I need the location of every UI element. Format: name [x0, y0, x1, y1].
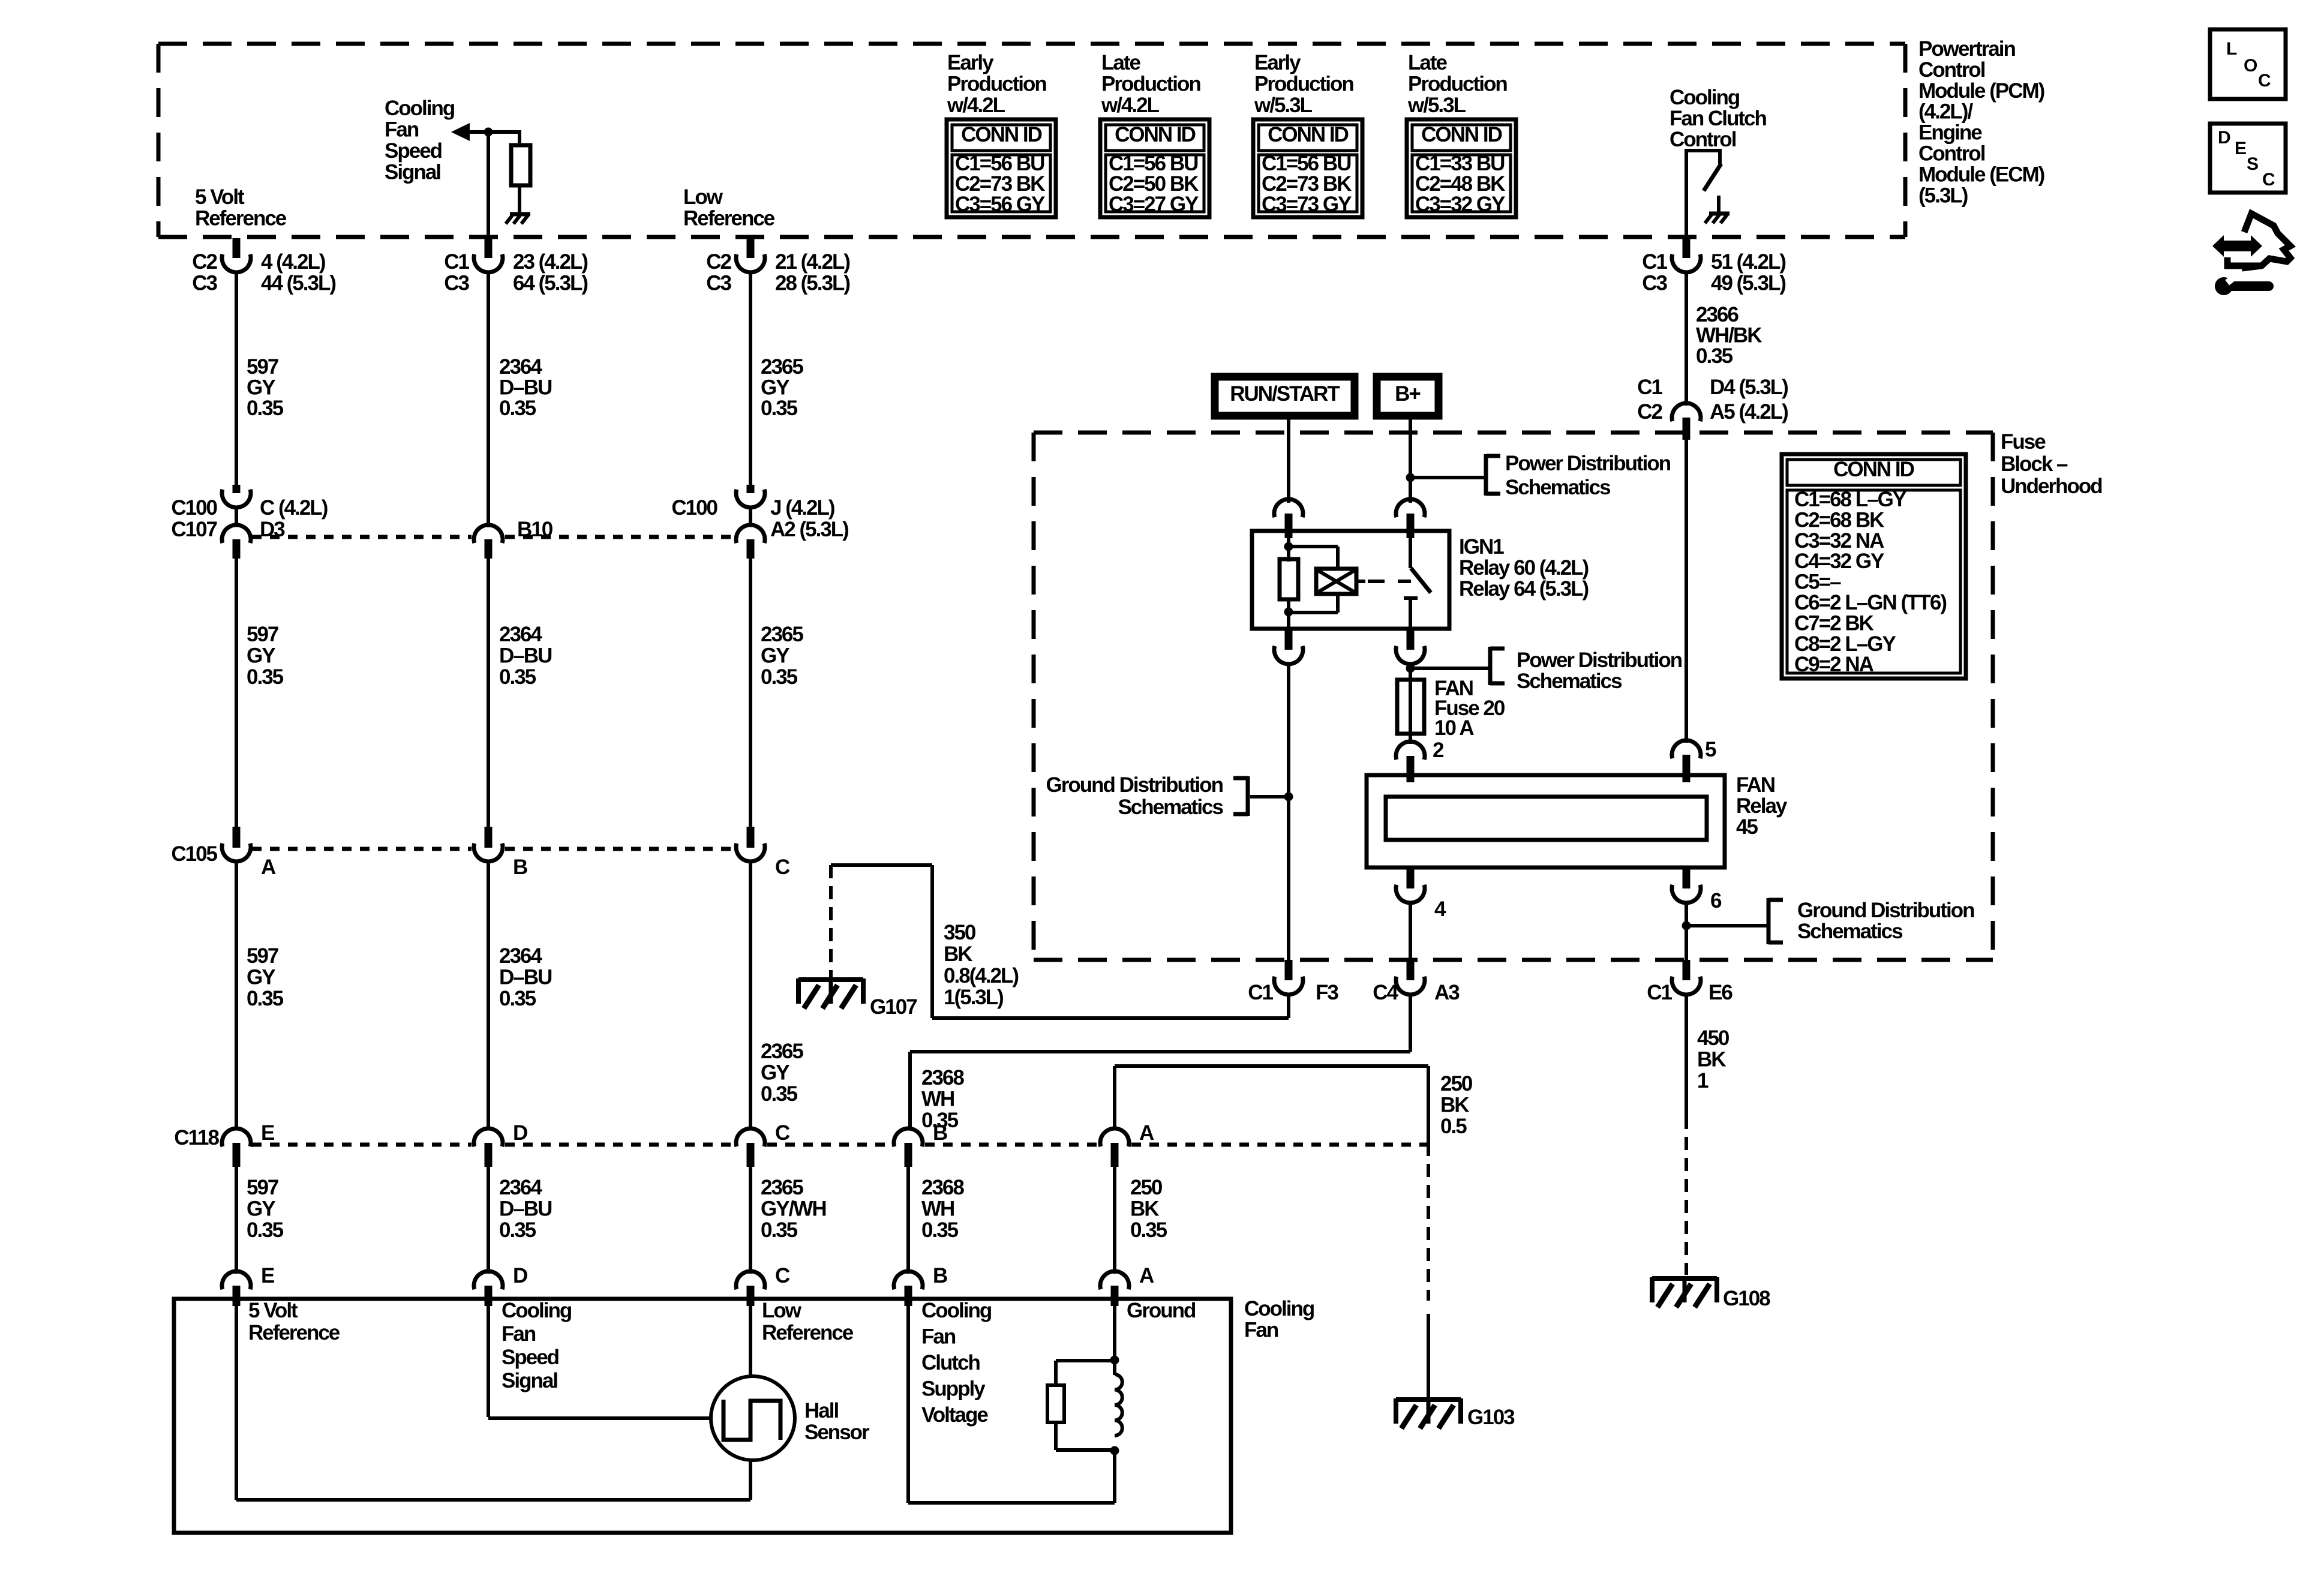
svg-text:5: 5: [1705, 738, 1716, 761]
svg-text:G103: G103: [1467, 1406, 1515, 1429]
connector at IGN1 relay output (switch side): [1396, 630, 1425, 664]
wire segment C118 to cooling fan (x=1251): [749, 1166, 752, 1274]
wire: coil low side long run to F3: [1287, 663, 1290, 980]
pin label right 21 (4.2L)/28 (5.3L): [775, 250, 849, 295]
svg-text:C2=68 BK: C2=68 BK: [1794, 508, 1884, 532]
wire: coil bottom to supply line: [1113, 1449, 1116, 1503]
wire 2364 D-BU: PCM to C100 row: [487, 272, 490, 527]
wire segment C105 to C118 (x=394): [235, 860, 238, 1130]
wire segment C118 to cooling fan (x=1858): [1113, 1166, 1116, 1274]
connector C1 F3 (fuse block bottom): [1274, 960, 1303, 995]
svg-text:Fan: Fan: [1244, 1319, 1278, 1342]
pin letter D at cooling fan: [513, 1264, 527, 1287]
svg-text:RUN/START: RUN/START: [1230, 382, 1340, 406]
svg-text:C1: C1: [1642, 250, 1667, 274]
svg-text:44 (5.3L): 44 (5.3L): [261, 272, 335, 295]
navigation arrow-wrench icon: [2212, 214, 2290, 295]
label FAN Fuse 20 10 A: [1434, 677, 1505, 740]
svg-text:C3: C3: [706, 272, 731, 295]
connector C100/C107 double (x=1251): [736, 485, 765, 559]
wire label 2366 WH/BK 0.35: [1696, 303, 1762, 368]
svg-text:Relay 64 (5.3L): Relay 64 (5.3L): [1459, 577, 1588, 601]
svg-text:GY: GY: [247, 644, 275, 668]
wire: horizontal 5V-ref to hall bottom: [236, 1498, 750, 1502]
svg-text:1(5.3L): 1(5.3L): [944, 986, 1003, 1009]
svg-text:D–BU: D–BU: [499, 644, 552, 668]
label: Late Production w/4.2L: [1101, 51, 1200, 117]
CONN ID table (Early Production w/5.3L): [1253, 119, 1362, 217]
svg-text:B+: B+: [1395, 382, 1421, 406]
svg-text:C8=2 L–GY: C8=2 L–GY: [1794, 632, 1896, 656]
pin label left C1/C3: [444, 250, 469, 295]
FAN Relay 45 outer box: [1367, 775, 1725, 867]
node: Low Reference (PCM internal label): [683, 185, 775, 230]
pin number 6 label: [1710, 889, 1722, 912]
svg-text:Cooling: Cooling: [385, 97, 455, 120]
wire: A3 down, left, down to fan B: [910, 994, 1410, 1130]
svg-text:2364: 2364: [499, 623, 542, 646]
svg-text:Speed: Speed: [502, 1346, 559, 1369]
svg-text:51 (4.2L): 51 (4.2L): [1711, 250, 1785, 274]
svg-text:GY: GY: [761, 644, 789, 668]
svg-text:Sensor: Sensor: [804, 1421, 870, 1444]
pin letter B at C105: [513, 855, 527, 879]
svg-text:597: 597: [247, 623, 278, 646]
svg-text:1: 1: [1697, 1069, 1709, 1092]
label Cooling Fan Speed Signal (fan): [502, 1299, 572, 1392]
svg-text:A2 (5.3L): A2 (5.3L): [770, 518, 848, 541]
svg-text:2365: 2365: [761, 1176, 803, 1199]
svg-text:Module (PCM): Module (PCM): [1918, 79, 2044, 103]
svg-text:350: 350: [944, 921, 976, 944]
svg-text:Relay: Relay: [1736, 794, 1788, 818]
svg-text:w/4.2L: w/4.2L: [947, 94, 1005, 117]
svg-text:C2: C2: [706, 250, 731, 274]
svg-text:(5.3L): (5.3L): [1918, 184, 1968, 207]
svg-text:BK: BK: [944, 942, 972, 966]
svg-text:A: A: [261, 855, 276, 879]
hall sensor circle: [711, 1376, 795, 1460]
svg-text:Late: Late: [1408, 51, 1448, 74]
wire: ground A down to coil: [1113, 1305, 1116, 1375]
label: Early Production w/5.3L: [1254, 51, 1353, 117]
connector at IGN1 relay pin (B+ side): [1396, 499, 1425, 538]
wire: 5V ref down inside fan box: [235, 1305, 238, 1500]
svg-text:G108: G108: [1723, 1287, 1770, 1310]
svg-text:2364: 2364: [499, 944, 542, 968]
pin label left C1/C3: [1642, 250, 1667, 295]
svg-text:Control: Control: [1918, 58, 1985, 82]
svg-text:GY: GY: [761, 1061, 789, 1085]
junction dot power distribution branch 2: [1406, 664, 1415, 673]
connector pin at PCM (x=814): [474, 238, 503, 272]
PCM/ECM module dashed box (Powertrain Control Module): [158, 44, 1905, 237]
mechanical link dashed (relay): [1368, 580, 1411, 583]
wire label 2364 D-BU 0.35 (segment 2): [499, 623, 552, 689]
svg-text:2: 2: [1433, 739, 1444, 762]
pin label right 51 (4.2L)/49 (5.3L): [1711, 250, 1785, 295]
junction dot ground distribution branch right: [1682, 921, 1691, 930]
svg-text:F3: F3: [1316, 981, 1338, 1004]
wire: speed signal vertical: [487, 132, 490, 239]
wire label 350 BK 0.8(4.2L) 1(5.3L): [944, 921, 1018, 1009]
svg-text:C100: C100: [171, 496, 217, 520]
svg-text:Schematics: Schematics: [1118, 795, 1223, 819]
svg-text:Reference: Reference: [248, 1321, 340, 1344]
svg-text:E: E: [261, 1264, 274, 1287]
svg-text:GY/WH: GY/WH: [761, 1197, 826, 1221]
svg-text:A: A: [1139, 1121, 1154, 1145]
connector pin at PCM (x=2811): [1672, 238, 1701, 272]
Fuse Block - Underhood dashed box: [1034, 433, 1993, 960]
label C100/C107 left: [171, 496, 217, 541]
svg-text:2365: 2365: [761, 623, 803, 646]
label FAN Relay 45: [1736, 773, 1788, 839]
svg-text:C3=56 GY: C3=56 GY: [955, 193, 1045, 216]
suppression element (crossed box) IGN1: [1316, 569, 1356, 594]
svg-text:E: E: [2235, 139, 2247, 158]
CONN ID table (Late Production w/5.3L): [1407, 119, 1516, 217]
svg-text:Cooling: Cooling: [502, 1299, 572, 1322]
svg-text:0.35: 0.35: [247, 397, 284, 420]
node: 5 Volt Reference (PCM internal label): [195, 185, 287, 230]
fuse FAN Fuse 20 10A: [1397, 680, 1424, 734]
wire: resistor branch top: [1056, 1361, 1115, 1387]
off-page ref bracket (Power Distribution 2): [1490, 647, 1505, 685]
svg-text:WH: WH: [921, 1197, 954, 1221]
svg-text:0.35: 0.35: [921, 1109, 959, 1132]
connector C118 pin E: [222, 1128, 251, 1167]
svg-text:10 A: 10 A: [1434, 716, 1474, 740]
svg-text:C4: C4: [1373, 981, 1398, 1004]
svg-text:C7=2 BK: C7=2 BK: [1794, 611, 1874, 635]
connector C100/C107 double (x=394): [222, 485, 251, 559]
svg-text:Powertrain: Powertrain: [1918, 37, 2015, 61]
svg-text:Clutch: Clutch: [921, 1351, 980, 1374]
svg-text:2365: 2365: [761, 355, 803, 379]
ground G108: [1652, 1277, 1717, 1307]
node: Cooling Fan Speed Signal (PCM internal label): [385, 97, 455, 184]
fan clutch coil (inductor): [1115, 1374, 1122, 1436]
svg-text:CONN ID: CONN ID: [961, 123, 1042, 146]
svg-text:C: C: [775, 855, 790, 879]
label D4 (5.3L) / A5 (4.2L): [1710, 376, 1788, 424]
wire segment C100 to C105 (x=394): [235, 557, 238, 828]
svg-text:Fan: Fan: [921, 1325, 956, 1349]
wire: dashed drop to G107: [829, 865, 833, 978]
pin letter A at cooling fan: [1139, 1264, 1154, 1287]
svg-text:C1: C1: [1647, 981, 1672, 1004]
pin letter C at C105: [775, 855, 790, 879]
svg-text:w/5.3L: w/5.3L: [1254, 94, 1313, 117]
svg-text:0.35: 0.35: [761, 665, 798, 689]
connector cooling fan pin A: [1100, 1271, 1129, 1306]
svg-text:Ground: Ground: [1127, 1299, 1196, 1322]
svg-text:0.35: 0.35: [921, 1218, 959, 1242]
svg-text:WH: WH: [921, 1088, 954, 1111]
svg-text:Signal: Signal: [385, 161, 440, 184]
resistor (PCM speed signal pull-up): [511, 145, 530, 185]
svg-text:C4=32 GY: C4=32 GY: [1794, 550, 1884, 573]
connector FAN relay pin 4: [1396, 869, 1425, 903]
pin letter B at cooling fan: [933, 1264, 947, 1287]
svg-text:B10: B10: [517, 518, 553, 541]
wire label 2364 D-BU 0.35 (segment 1): [499, 355, 552, 420]
wire: branch to power distribution ref 2: [1410, 667, 1490, 670]
svg-text:Hall: Hall: [804, 1399, 838, 1422]
wire: pin 6 to E6: [1685, 902, 1688, 980]
relay switch blade (IGN1): [1411, 568, 1431, 593]
DESC icon box: [2210, 124, 2286, 193]
svg-text:2368: 2368: [921, 1066, 964, 1089]
connector C118 pin D: [474, 1128, 503, 1167]
svg-text:FAN: FAN: [1736, 773, 1774, 797]
svg-text:C5=–: C5=–: [1794, 571, 1841, 594]
wire label 2368 WH 0.35 (segment 1): [921, 1066, 964, 1132]
junction dot B+ branch: [1406, 473, 1415, 482]
pin label right 4 (4.2L)/44 (5.3L): [261, 250, 335, 295]
wire label 2364 D-BU 0.35 (segment 4): [499, 1176, 552, 1242]
svg-text:2364: 2364: [499, 355, 542, 379]
ground G103: [1396, 1398, 1461, 1428]
pin letter C at cooling fan: [775, 1264, 790, 1287]
label C100 right: [671, 496, 717, 520]
svg-text:C118: C118: [174, 1126, 219, 1149]
resistor (clutch parallel): [1047, 1385, 1064, 1422]
pin letter A at C118: [1139, 1121, 1154, 1145]
svg-text:Underhood: Underhood: [2001, 475, 2102, 498]
svg-text:250: 250: [1130, 1176, 1163, 1199]
pin label left C2/C3: [706, 250, 731, 295]
svg-text:D–BU: D–BU: [499, 1197, 552, 1221]
FAN Relay 45 inner bar: [1386, 797, 1707, 840]
PCM module name label: [1918, 37, 2044, 207]
ground G107: [798, 978, 863, 1008]
wire: crossed box to mech link: [1356, 580, 1365, 583]
wire segment C118 to cooling fan (x=814): [487, 1166, 490, 1274]
svg-text:Module (ECM): Module (ECM): [1918, 163, 2044, 186]
svg-text:Production: Production: [947, 73, 1046, 96]
label F3: [1316, 981, 1338, 1004]
svg-text:0.35: 0.35: [247, 987, 284, 1010]
svg-text:A3: A3: [1434, 981, 1460, 1004]
svg-text:C3=32 GY: C3=32 GY: [1415, 193, 1505, 216]
svg-text:D3: D3: [260, 518, 285, 541]
svg-text:Cooling: Cooling: [1244, 1297, 1314, 1320]
ground (PCM internal, speed signal): [506, 214, 530, 224]
svg-text:C6=2 L–GN (TT6): C6=2 L–GN (TT6): [1794, 591, 1946, 614]
wire label 597 GY 0.35 (segment 3): [247, 944, 284, 1010]
svg-text:0.35: 0.35: [761, 1082, 798, 1106]
CONN ID table (Fuse Block - Underhood): [1782, 454, 1966, 679]
wire label 2365 GY 0.35 (segment 2): [761, 623, 803, 689]
svg-text:Early: Early: [947, 51, 994, 74]
svg-text:6: 6: [1710, 889, 1722, 912]
svg-text:C3=32 NA: C3=32 NA: [1794, 529, 1884, 553]
connector B10 single (wire 2364): [474, 525, 503, 559]
pin letter A at C105: [261, 855, 276, 879]
off-page ref bracket (Ground Distribution right): [1768, 898, 1783, 944]
label E6: [1709, 981, 1733, 1004]
svg-text:0.35: 0.35: [499, 397, 536, 420]
label G108: [1723, 1287, 1770, 1310]
pin number 5 label: [1705, 738, 1716, 761]
wire: branch to ground distribution ref: [1250, 795, 1289, 798]
switch (Cooling Fan Clutch Control driver): [1685, 149, 1721, 191]
label A3: [1434, 981, 1460, 1004]
svg-text:Control: Control: [1918, 142, 1985, 166]
svg-text:0.8(4.2L): 0.8(4.2L): [944, 964, 1018, 987]
svg-text:597: 597: [247, 355, 278, 379]
svg-text:2365: 2365: [761, 1040, 803, 1063]
svg-text:23 (4.2L): 23 (4.2L): [513, 250, 587, 274]
junction dot relay coil bottom: [1284, 608, 1293, 617]
svg-text:0.5: 0.5: [1440, 1115, 1467, 1138]
svg-text:C2: C2: [1637, 400, 1662, 424]
wire: relay coil bottom: [1287, 599, 1290, 631]
pin letter B at C118: [933, 1121, 947, 1145]
wire label 2364 D-BU 0.35 (segment 3): [499, 944, 552, 1010]
svg-text:5 Volt: 5 Volt: [195, 185, 245, 209]
svg-text:4 (4.2L): 4 (4.2L): [261, 250, 325, 274]
svg-text:C1: C1: [1248, 981, 1273, 1004]
B+ feed box: [1377, 377, 1439, 416]
wire: clutch control to FAN relay pin 5: [1685, 435, 1688, 743]
wire label 2365 GY 0.35 (segment 3): [761, 1040, 803, 1106]
label: Late Production w/5.3L: [1407, 51, 1507, 117]
svg-text:L: L: [2226, 39, 2237, 59]
wire 2365 GY: PCM to C100: [749, 272, 752, 487]
label C1 (E6): [1647, 981, 1672, 1004]
wire: speed signal horizontal to hall sensor: [488, 1416, 713, 1420]
svg-text:Ground Distribution: Ground Distribution: [1046, 773, 1223, 797]
svg-text:C1=68 L–GY: C1=68 L–GY: [1794, 488, 1906, 511]
CONN ID table (Early Production w/4.2L): [947, 119, 1056, 217]
svg-text:2366: 2366: [1696, 303, 1739, 326]
svg-text:(4.2L)/: (4.2L)/: [1918, 100, 1973, 124]
svg-text:Fan: Fan: [502, 1322, 536, 1346]
svg-text:C: C: [775, 1264, 790, 1287]
svg-text:C3: C3: [444, 272, 469, 295]
svg-text:2364: 2364: [499, 1176, 542, 1199]
svg-text:0.35: 0.35: [499, 665, 536, 689]
label Ground (fan): [1127, 1299, 1196, 1322]
relay switch lower contact tick: [1404, 596, 1418, 600]
label 5 Volt Reference (fan): [248, 1299, 340, 1344]
svg-text:Fan Clutch: Fan Clutch: [1670, 107, 1766, 130]
wire 597 GY: PCM to C100: [235, 272, 238, 487]
inline connector dashed line C100/C107 row: [252, 535, 734, 539]
wire label 2368 WH 0.35 (segment 2): [921, 1176, 964, 1242]
wire segment C118 to cooling fan (x=1514): [906, 1166, 910, 1274]
wire: B+ down: [1409, 417, 1412, 503]
connector C118 pin A: [1100, 1128, 1129, 1167]
connector C1/C2 D4/A5 (fuse block top): [1672, 403, 1701, 440]
Cooling Fan component box: [174, 1299, 1231, 1533]
svg-text:C107: C107: [171, 518, 217, 541]
svg-text:E6: E6: [1709, 981, 1733, 1004]
svg-text:D–BU: D–BU: [499, 376, 552, 400]
svg-text:Engine: Engine: [1918, 121, 1982, 145]
svg-text:2368: 2368: [921, 1176, 964, 1199]
svg-text:CONN ID: CONN ID: [1421, 123, 1502, 146]
svg-text:C (4.2L): C (4.2L): [260, 496, 328, 520]
label C (4.2L) / D3: [260, 496, 328, 541]
RUN/START feed box: [1215, 377, 1355, 416]
connector pin at PCM (x=1251): [736, 238, 765, 272]
svg-text:49 (5.3L): 49 (5.3L): [1711, 272, 1785, 295]
svg-text:w/4.2L: w/4.2L: [1101, 94, 1160, 117]
junction dot ground distribution branch: [1284, 792, 1293, 801]
wire: hall sensor bottom down: [749, 1461, 752, 1500]
wire: F3 down and left to G107 node: [831, 865, 1289, 1018]
svg-text:CONN ID: CONN ID: [1833, 458, 1914, 481]
label: Early Production w/4.2L: [947, 51, 1046, 117]
inline connector dashed line C118 row: [252, 1143, 1427, 1147]
svg-text:C9=2 NA: C9=2 NA: [1794, 653, 1874, 676]
svg-text:Schematics: Schematics: [1505, 476, 1611, 499]
svg-text:0.35: 0.35: [1696, 344, 1733, 368]
svg-text:G107: G107: [870, 995, 917, 1019]
svg-text:C3: C3: [192, 272, 217, 295]
wire segment C105 to C118 (x=1251): [749, 860, 752, 1130]
wire: dashed drop to G108: [1685, 1116, 1688, 1275]
svg-text:4: 4: [1434, 897, 1446, 921]
svg-text:Power Distribution: Power Distribution: [1517, 649, 1682, 672]
svg-text:C3=27 GY: C3=27 GY: [1109, 193, 1199, 216]
svg-text:C3: C3: [1642, 272, 1667, 295]
pin letter C at C118: [775, 1121, 790, 1145]
label C1/C2 left: [1637, 376, 1662, 424]
wire: crossed box bottom return: [1289, 594, 1338, 613]
label Cooling Fan (outside box): [1244, 1297, 1314, 1342]
junction dot on speed signal wire: [484, 128, 493, 137]
label Power Distribution Schematics (2): [1517, 649, 1682, 693]
svg-text:C: C: [2258, 71, 2271, 91]
svg-text:B: B: [933, 1264, 947, 1287]
label Ground Distribution Schematics (left): [1046, 773, 1224, 819]
svg-text:C105: C105: [171, 842, 217, 866]
LOC icon box: [2210, 29, 2286, 99]
svg-text:0.35: 0.35: [1130, 1218, 1167, 1242]
wire: speed signal branch down to resistor: [518, 130, 521, 146]
wire: fan ground A up, right, down: [1115, 1066, 1428, 1143]
svg-text:250: 250: [1440, 1072, 1473, 1095]
connector pin at PCM (x=394): [222, 238, 251, 272]
svg-text:CONN ID: CONN ID: [1268, 123, 1349, 146]
pin number 2 label: [1433, 739, 1444, 762]
wire: low reference down to hall sensor top: [749, 1305, 752, 1377]
svg-text:Low: Low: [683, 185, 723, 209]
CONN ID table (Late Production w/4.2L): [1100, 119, 1209, 217]
junction dot coil bottom: [1110, 1446, 1119, 1455]
wire label 450 BK 1: [1697, 1026, 1730, 1092]
connector cooling fan pin C: [736, 1271, 765, 1306]
svg-text:BK: BK: [1697, 1048, 1726, 1071]
svg-text:J (4.2L): J (4.2L): [770, 496, 834, 520]
svg-text:D–BU: D–BU: [499, 966, 552, 989]
IGN1 relay box: [1252, 531, 1449, 629]
svg-text:Reference: Reference: [683, 207, 775, 230]
svg-text:Control: Control: [1670, 128, 1736, 151]
inline connector dashed line C105 row: [252, 847, 734, 851]
svg-text:BK: BK: [1440, 1094, 1469, 1117]
svg-text:C: C: [2262, 170, 2275, 190]
svg-text:E: E: [261, 1121, 274, 1145]
svg-text:w/5.3L: w/5.3L: [1407, 94, 1466, 117]
label J (4.2L) / A2 (5.3L): [770, 496, 848, 541]
connector C105 pin C: [736, 827, 765, 861]
